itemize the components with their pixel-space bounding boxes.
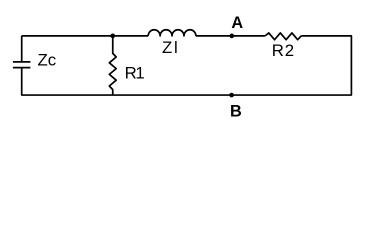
- svg-text:R1: R1: [125, 64, 145, 83]
- svg-text:A: A: [231, 14, 243, 32]
- svg-text:Zl: Zl: [162, 38, 180, 57]
- svg-text:R2: R2: [272, 41, 295, 60]
- svg-text:Zc: Zc: [38, 51, 57, 70]
- svg-text:B: B: [230, 103, 242, 121]
